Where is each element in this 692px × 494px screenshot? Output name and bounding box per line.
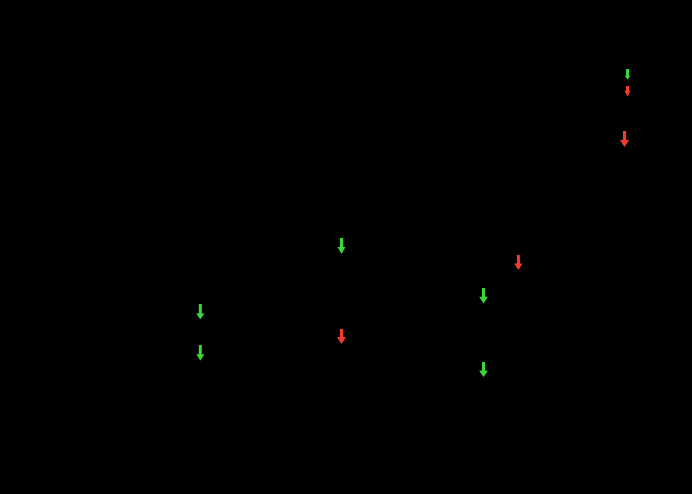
current arrow I4 (green, down) [338,238,346,254]
current arrow I5 (red, down) [514,255,522,270]
current arrow I6 (green, down) [479,288,488,304]
wire (branch at x=624.5) [624,128,626,150]
wire (branch at x=341.5, upper) [341,232,343,258]
current arrow I1 (green, small, down) [625,69,631,80]
wire (branch at x=483.5) [483,282,485,382]
current arrow I3 (red, down) [620,131,629,147]
wire (branch at x=518.4) [517,250,519,274]
current arrow I8 (red, down) [337,329,346,344]
current arrow I7 (green, down) [196,304,204,320]
current arrow I2 (red, small, down) [625,86,631,97]
current arrow I10 (green, down) [479,362,488,377]
current arrow I9 (green, down) [196,345,204,361]
wire (branch at x=200.3) [199,298,201,366]
wire (branch at x=341.5, lower) [341,324,343,348]
wire (branch at x=627, top right) [627,60,629,125]
